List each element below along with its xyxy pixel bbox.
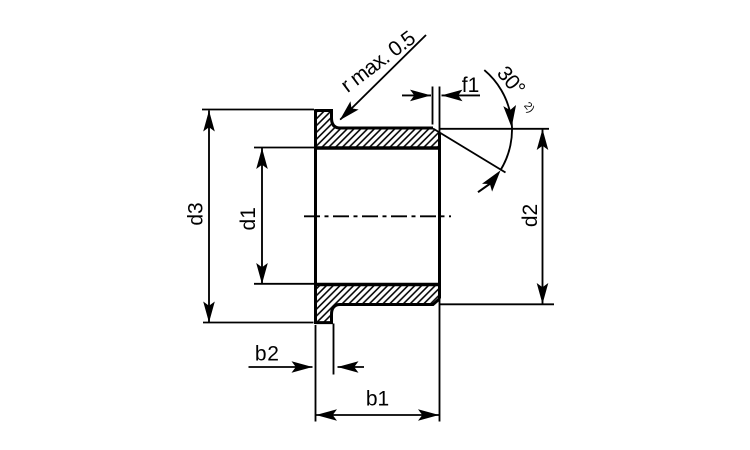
dimension d1 extension top bbox=[254, 147, 314, 149]
flange left face bbox=[314, 109, 317, 324]
leader line r max. 0.5 bbox=[340, 35, 426, 120]
dimension b2 arrow right-pointing bbox=[292, 361, 313, 373]
svg-text:d1: d1 bbox=[237, 207, 260, 230]
dimension f1 extension left bbox=[432, 87, 434, 125]
svg-text:d3: d3 bbox=[185, 202, 208, 225]
30 degree chamfer construction line bbox=[433, 129, 506, 173]
dimension d3 arrow down bbox=[203, 302, 215, 323]
dimension b1 extension left bbox=[315, 325, 317, 422]
dimension d2 arrow up bbox=[537, 129, 549, 150]
centerline bbox=[304, 215, 451, 217]
dimension d2 extension bottom bbox=[439, 303, 554, 305]
dimension b1 arrow right bbox=[418, 409, 439, 421]
dimension b2 left tail bbox=[249, 366, 313, 368]
svg-text:f1: f1 bbox=[462, 74, 480, 97]
dimension b1 line bbox=[316, 414, 439, 416]
top section outline bbox=[315, 111, 433, 129]
dimension f1 arrow left-pointing bbox=[442, 90, 463, 102]
dimension d3 line bbox=[208, 111, 210, 323]
dimension b1 extension right bbox=[439, 87, 441, 422]
dimension b1 arrow left bbox=[316, 409, 337, 421]
bore bottom line bbox=[314, 283, 440, 286]
dimension d1 arrow up bbox=[256, 148, 268, 169]
dimension d1 extension bottom bbox=[254, 283, 314, 285]
dimension b2 arrow left-pointing bbox=[338, 361, 359, 373]
dimension d2 arrow down bbox=[537, 283, 549, 304]
dimension d3 extension top bbox=[202, 109, 314, 111]
dimension f1 left tail bbox=[402, 94, 431, 96]
angle arc arrow bottom tail bbox=[478, 184, 490, 193]
bore top line bbox=[314, 146, 440, 149]
dimension f1 right tail bbox=[442, 94, 481, 96]
end face (right) bbox=[438, 133, 441, 299]
dimension b2 right tail bbox=[338, 366, 365, 368]
leader arrow bbox=[336, 101, 359, 124]
angle dimension arc bbox=[484, 70, 512, 170]
dimension d1 arrow down bbox=[256, 263, 268, 284]
angle arc arrow top bbox=[503, 105, 518, 128]
dimension f1 arrow right-pointing bbox=[410, 90, 431, 102]
dimension d3 extension bottom bbox=[203, 322, 314, 324]
dimension d2 extension top bbox=[439, 128, 549, 130]
dimension d3 arrow up bbox=[203, 111, 215, 132]
dimension d2 line bbox=[542, 129, 544, 304]
svg-text:d2: d2 bbox=[519, 204, 542, 227]
hatched flange/wall cross-section (bottom) bbox=[315, 286, 440, 323]
hatched flange/wall cross-section (top) bbox=[315, 111, 440, 147]
angle arc arrow bottom bbox=[482, 166, 506, 191]
dimension b2 extension (flange step) bbox=[333, 324, 335, 375]
dimension d1 line bbox=[261, 148, 263, 284]
bottom section outline bbox=[315, 299, 440, 323]
svg-text:b2: b2 bbox=[255, 342, 280, 365]
svg-text:b1: b1 bbox=[366, 388, 389, 411]
